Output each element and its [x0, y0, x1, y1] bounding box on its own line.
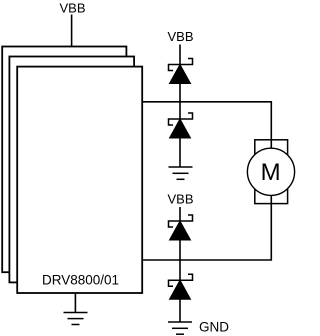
wire VBB to chip top: [71, 15, 73, 48]
wire OUT1 (chip to motor, top): [142, 102, 271, 150]
diode D2 (upper clamp, bottom): [169, 113, 193, 138]
chip U1 back outline: [2, 47, 126, 273]
wire D4 anode to ground: [179, 299, 181, 322]
diode D4 (lower clamp, bottom): [169, 274, 193, 299]
svg-text:GND: GND: [199, 320, 229, 335]
ground (lower clamp): [168, 322, 192, 334]
chip U1 front outline DRV8800/01: [17, 67, 142, 293]
svg-text:DRV8800/01: DRV8800/01: [42, 272, 119, 287]
ground (chip): [64, 313, 88, 325]
wire VBB to diode D1: [179, 45, 181, 67]
svg-text:M: M: [261, 159, 281, 186]
diode D1 (upper clamp, top): [169, 59, 193, 84]
wire D3 anode to node OUT2 to D4 cathode: [179, 240, 181, 282]
diode D3 (lower clamp, top): [169, 215, 193, 240]
wire D2 anode to ground: [179, 138, 181, 167]
svg-text:VBB: VBB: [167, 192, 193, 207]
ground (upper clamp): [169, 167, 193, 179]
svg-text:VBB: VBB: [167, 29, 193, 44]
chip U1 middle outline: [9, 57, 134, 283]
wire chip to ground: [74, 293, 76, 313]
svg-text:VBB: VBB: [59, 0, 85, 15]
wire VBB to diode D3: [179, 207, 181, 223]
wire OUT2 (chip to motor, bottom): [142, 194, 271, 260]
motor M1 body: [247, 148, 294, 195]
wire D1 anode to node OUT1 to D2 cathode: [179, 84, 181, 122]
motor M1 top terminal: [255, 140, 288, 172]
motor M1 bottom terminal: [255, 172, 288, 204]
